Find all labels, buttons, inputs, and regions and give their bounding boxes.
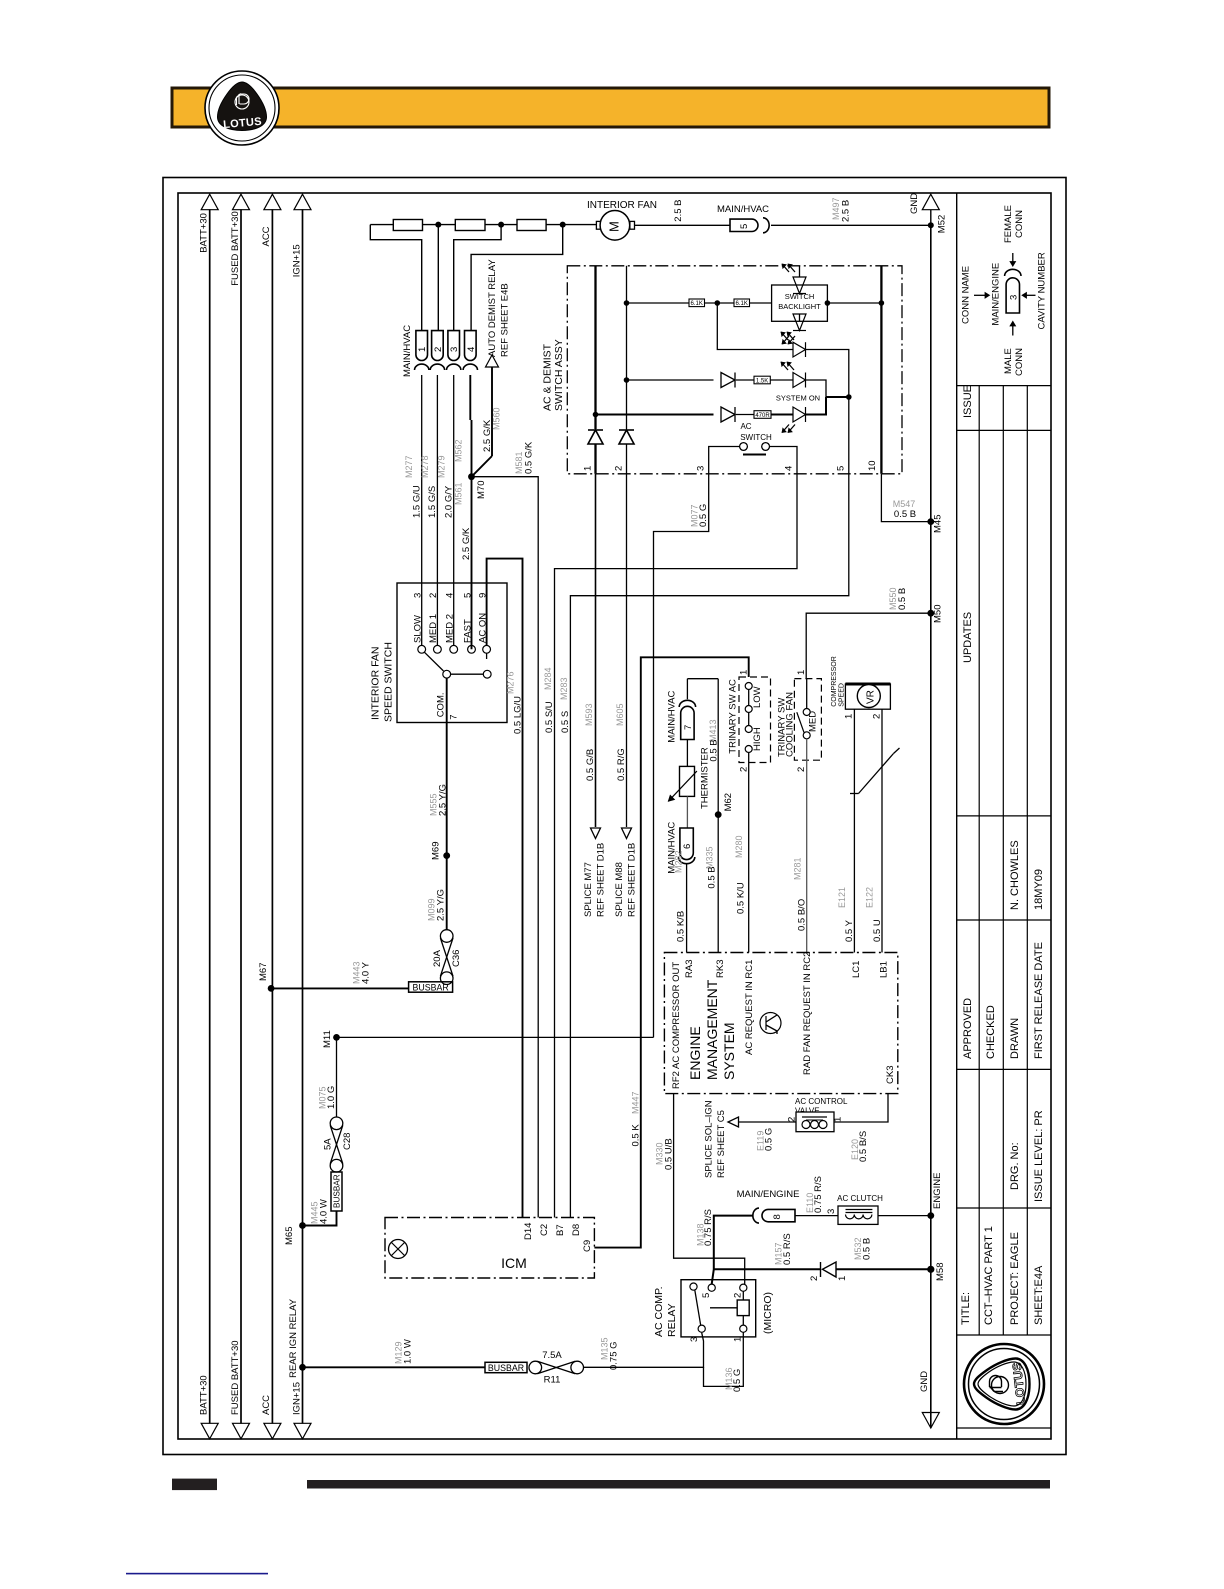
LED system-on indicator (row3) (793, 342, 806, 357)
wire bus seg2 (485, 224, 517, 226)
wire 2.5 G/K M561 to M70 (471, 420, 473, 649)
svg-text:2.5 G/K: 2.5 G/K (461, 527, 472, 560)
svg-text:2: 2 (733, 1293, 744, 1298)
svg-text:0.5 B/O: 0.5 B/O (796, 899, 807, 931)
speed switch contact MED 2 (450, 645, 458, 653)
wire M65 to busbar (4.0 W M445) (303, 1211, 337, 1226)
fuse 7.5A R11 (529, 1361, 542, 1374)
svg-text:3: 3 (696, 466, 707, 471)
resistor fan speed R-med1 (455, 220, 485, 231)
wire LED3 to pin5 wire (806, 350, 849, 474)
switch box TRINARY SW AC (739, 677, 771, 763)
wire 2.5 Y/G M555 (COM to M69) (446, 678, 448, 856)
relay pivot and blade (690, 1283, 697, 1290)
svg-text:PROJECT: EAGLE: PROJECT: EAGLE (1009, 1232, 1021, 1325)
wire M443 4.0 Y (M67 to busbar) (271, 987, 409, 989)
title block row dividers (957, 385, 1051, 387)
busbar (C28) (331, 1172, 342, 1211)
svg-text:2.5 B: 2.5 B (673, 200, 684, 222)
wire 0.5 G/K M581 branch (472, 477, 539, 1218)
svg-text:D14: D14 (523, 1223, 534, 1240)
svg-text:M11: M11 (322, 1030, 333, 1048)
svg-text:0.5 S: 0.5 S (560, 711, 571, 733)
svg-text:SYSTEM ON: SYSTEM ON (776, 394, 820, 403)
svg-text:COM.: COM. (436, 692, 447, 717)
svg-text:0.75 R/S: 0.75 R/S (813, 1176, 824, 1213)
svg-text:SPEED: SPEED (839, 683, 846, 707)
LED backlight lower (799, 314, 801, 322)
fuse 20A C36 (440, 930, 453, 943)
svg-text:M282: M282 (674, 850, 684, 873)
svg-text:REF SHEET E4B: REF SHEET E4B (500, 283, 511, 357)
arrow splice M88 (622, 828, 632, 839)
svg-text:M335: M335 (705, 846, 715, 869)
svg-text:CCT–HVAC PART 1: CCT–HVAC PART 1 (983, 1226, 995, 1325)
node on wire2 (backlight) (624, 300, 630, 306)
wire RK3 (M62 splice, 0.5 B M335) (717, 679, 719, 953)
node M65 on IGN+15 rail (299, 1222, 306, 1229)
svg-text:ICM: ICM (501, 1255, 527, 1271)
svg-text:0.75 R/S: 0.75 R/S (703, 1209, 714, 1246)
speed switch contact MED 1 (434, 645, 442, 653)
svg-text:3: 3 (449, 347, 460, 352)
svg-text:0.5 K/U: 0.5 K/U (736, 882, 747, 914)
relay coil (737, 1300, 749, 1316)
header yellow banner (172, 88, 1049, 127)
wire assy pin4 to ICM B7 (0.5 S/U M284) (555, 474, 798, 1218)
node M52 (928, 222, 934, 228)
wire LED5 up to SYSTEM ON junction (806, 397, 827, 415)
svg-text:4: 4 (784, 466, 795, 471)
switch box TRINARY SW COOLING FAN (794, 679, 821, 761)
ECU box ENGINE MANAGEMENT SYSTEM (664, 953, 897, 1094)
wire 1.5 G/U M277 (421, 375, 423, 645)
wire IGN+15 to busbar R11 (1.0 W M129) (303, 1366, 486, 1368)
svg-text:BUSBAR: BUSBAR (333, 1174, 342, 1208)
wire assy pin5 to ICM D8 (0.5 S M283) (570, 474, 848, 1218)
svg-text:M65: M65 (284, 1227, 295, 1245)
busbar (C36) (409, 982, 453, 992)
wire diode to M58 (836, 1268, 931, 1270)
svg-text:3: 3 (689, 1337, 700, 1342)
power rail BATT+30 wire (209, 209, 211, 1423)
svg-text:GND: GND (909, 193, 920, 214)
resistor fan speed R-med2 (517, 220, 546, 231)
svg-text:CHECKED: CHECKED (985, 1005, 997, 1059)
svg-text:0.5 G: 0.5 G (732, 1369, 743, 1392)
svg-text:0.5 B: 0.5 B (894, 509, 916, 520)
connector MAIN/HVAC cavity 4 (465, 331, 477, 361)
svg-text:0.5 B: 0.5 B (862, 1238, 873, 1260)
svg-text:M547: M547 (893, 499, 916, 509)
svg-text:1.0 G: 1.0 G (326, 1086, 337, 1109)
svg-text:B7: B7 (555, 1224, 566, 1236)
svg-text:M276: M276 (506, 671, 516, 694)
cooling fan contacts MED (803, 709, 810, 716)
relay pin 1 (740, 1325, 747, 1332)
svg-text:FIRST RELEASE DATE: FIRST RELEASE DATE (1033, 942, 1045, 1059)
svg-text:BACKLIGHT: BACKLIGHT (778, 302, 821, 311)
svg-text:SPLICE M88: SPLICE M88 (614, 862, 625, 917)
svg-text:HIGH: HIGH (752, 727, 763, 751)
resistor 1.5K (736, 379, 754, 381)
connector MAIN/HVAC cavity 2 (432, 331, 444, 361)
svg-text:COOLING FAN: COOLING FAN (785, 692, 796, 757)
power rail BATT+30 top arrow (201, 194, 218, 210)
svg-text:FEMALE: FEMALE (1003, 205, 1014, 243)
svg-text:UPDATES: UPDATES (962, 612, 974, 663)
svg-text:M70: M70 (476, 481, 487, 499)
svg-text:SHEET:E4A: SHEET:E4A (1033, 1265, 1045, 1325)
title block column lines (978, 386, 980, 1335)
svg-text:REAR IGN RELAY: REAR IGN RELAY (288, 1298, 299, 1378)
svg-text:MANAGEMENT: MANAGEMENT (704, 979, 720, 1080)
svg-text:(MICRO): (MICRO) (762, 1292, 774, 1334)
svg-text:10: 10 (867, 460, 878, 471)
power rail FUSED BATT+30 top arrow (233, 194, 250, 210)
VR symbol (857, 685, 880, 708)
svg-text:3: 3 (1009, 295, 1020, 300)
svg-text:FUSED BATT+30: FUSED BATT+30 (230, 211, 241, 286)
svg-text:CONN: CONN (1014, 210, 1025, 238)
svg-text:0.5 B: 0.5 B (707, 866, 718, 888)
trinary AC contacts HIGH (745, 726, 752, 733)
svg-text:M284: M284 (543, 667, 553, 690)
legend arrow female (1012, 253, 1014, 262)
svg-text:5: 5 (701, 1293, 712, 1298)
svg-text:M52: M52 (937, 215, 948, 233)
svg-text:BATT+30: BATT+30 (199, 1375, 210, 1415)
resistor 470R (736, 414, 754, 416)
wire AC switch left to pin3 (709, 447, 740, 474)
title block left edge (956, 193, 958, 1439)
svg-text:M62: M62 (723, 793, 734, 811)
svg-text:5: 5 (836, 466, 847, 471)
svg-text:2.5 B: 2.5 B (841, 200, 852, 222)
svg-text:CONN: CONN (1014, 348, 1025, 376)
svg-text:APPROVED: APPROVED (962, 998, 974, 1059)
wire 2.5 G/K M562 upper (469, 375, 471, 420)
wire AC switch right to pin4 (770, 447, 797, 474)
svg-text:3: 3 (413, 593, 424, 598)
svg-text:RELAY: RELAY (666, 1303, 678, 1337)
wire M11 down to fuse C28 (1.0 G M075) (336, 1037, 338, 1117)
svg-text:AC CLUTCH: AC CLUTCH (837, 1194, 883, 1203)
svg-text:COMPRESSOR: COMPRESSOR (831, 656, 838, 707)
svg-text:C36: C36 (451, 950, 462, 967)
outer border frame (163, 178, 1066, 1455)
svg-text:MALE: MALE (1003, 348, 1014, 374)
svg-text:M581: M581 (514, 451, 524, 474)
footer blue rule (126, 1573, 268, 1575)
svg-text:INTERIOR FAN: INTERIOR FAN (370, 646, 382, 720)
svg-text:1: 1 (837, 1276, 848, 1281)
svg-text:CAVITY NUMBER: CAVITY NUMBER (1037, 252, 1048, 329)
svg-text:20A: 20A (432, 949, 443, 967)
wire top bus left step (370, 225, 421, 331)
wire assy pin1 feed (thick) (594, 266, 596, 415)
resistor 6.1K (second) (734, 299, 750, 307)
LED backlight upper (799, 266, 801, 277)
EMS transistor symbol (760, 1013, 781, 1034)
svg-text:2: 2 (428, 593, 439, 598)
svg-text:E122: E122 (865, 887, 875, 908)
svg-text:E121: E121 (837, 887, 847, 908)
svg-text:INTERIOR FAN: INTERIOR FAN (587, 200, 657, 211)
svg-text:M: M (607, 221, 622, 232)
node on IGN+15 rail (R11 feed) (299, 1364, 306, 1371)
svg-text:2: 2 (796, 767, 807, 772)
wire drop to MAIN/HVAC pin4 (471, 225, 563, 331)
wire backlight row (627, 302, 690, 304)
svg-text:MED: MED (808, 711, 819, 732)
svg-text:SPLICE M77: SPLICE M77 (583, 862, 594, 917)
svg-text:DRG. No:: DRG. No: (1009, 1142, 1021, 1190)
wire motor to connector 5 (635, 224, 731, 226)
node M62 (715, 811, 722, 818)
svg-text:ACC: ACC (261, 1395, 272, 1415)
Lotus roundel logo (title block) (964, 1344, 1044, 1424)
svg-text:0.5 S/U: 0.5 S/U (544, 701, 555, 733)
diode (1.5K row) (721, 373, 735, 388)
wire speed switch pin 9 to 0.5 LG/U (487, 559, 523, 1218)
resistor 6.1K (first) (689, 299, 705, 307)
fuse 5A C28 (330, 1117, 343, 1130)
diode on assy wire 1 (588, 430, 603, 444)
speed switch common contact (443, 670, 451, 678)
wire conn8 to AC clutch (0.75 R/S E110) (795, 1215, 838, 1217)
svg-text:FUSED BATT+30: FUSED BATT+30 (230, 1340, 241, 1415)
svg-text:AUTO DEMIST RELAY: AUTO DEMIST RELAY (487, 259, 498, 357)
svg-text:VR: VR (866, 690, 877, 704)
wire drop to MAIN/HVAC pin2 (437, 225, 439, 331)
svg-text:IGN+15: IGN+15 (291, 244, 302, 277)
node M58 (927, 1266, 934, 1273)
footer bar long (307, 1480, 1050, 1489)
svg-text:LC1: LC1 (851, 961, 862, 978)
svg-text:7.5A: 7.5A (542, 1350, 562, 1361)
connector MAIN/HVAC cavity 1 (416, 331, 428, 361)
svg-text:5: 5 (739, 224, 750, 229)
svg-text:SLOW: SLOW (413, 615, 424, 643)
svg-text:GND: GND (919, 1371, 930, 1392)
svg-text:MED 2: MED 2 (445, 614, 456, 643)
node on wire2 (1.5K row) (624, 377, 630, 383)
svg-text:0.5 LG/U: 0.5 LG/U (513, 696, 524, 734)
svg-text:M50: M50 (933, 605, 944, 623)
svg-text:18MY09: 18MY09 (1033, 869, 1045, 910)
svg-text:0.5 K/B: 0.5 K/B (675, 911, 686, 942)
relay pin 3 (698, 1325, 705, 1332)
svg-text:0.5 G/B: 0.5 G/B (585, 749, 596, 781)
svg-text:M283: M283 (559, 677, 569, 700)
wire mid node to LED3 row (717, 303, 793, 350)
svg-text:C9: C9 (582, 1240, 593, 1252)
svg-text:M45: M45 (933, 515, 944, 533)
wire 1.5 G/S M278 (436, 375, 438, 645)
svg-text:0.5 K: 0.5 K (630, 1124, 641, 1147)
svg-text:TRINARY SW AC: TRINARY SW AC (728, 679, 739, 754)
power rail ACC top arrow (264, 194, 281, 210)
wire 1.5K row (627, 379, 714, 381)
wire trinary AC pin2 to EMS RC1 (0.5 K/U M280) (748, 753, 750, 953)
svg-text:4: 4 (466, 347, 477, 352)
svg-text:M560: M560 (492, 407, 502, 430)
speed switch contact AC ON (483, 645, 491, 653)
svg-text:1: 1 (833, 1117, 844, 1122)
svg-text:AC COMP.: AC COMP. (653, 1286, 665, 1337)
svg-text:AC: AC (740, 422, 751, 431)
svg-text:THERMISTER: THERMISTER (700, 747, 711, 809)
svg-text:8: 8 (772, 1214, 783, 1219)
svg-text:SWITCH ASSY: SWITCH ASSY (553, 339, 565, 411)
svg-text:M605: M605 (615, 703, 625, 726)
svg-text:0.5 G: 0.5 G (764, 1128, 775, 1151)
relay box AC COMP. RELAY (MICRO) (681, 1280, 756, 1337)
svg-text:7: 7 (449, 715, 460, 720)
svg-text:REF SHEET D1B: REF SHEET D1B (596, 843, 607, 917)
svg-text:4.0 Y: 4.0 Y (361, 961, 372, 984)
svg-text:2: 2 (614, 466, 625, 471)
legend arrow male (1012, 326, 1014, 336)
node on pin5 wire (846, 394, 852, 400)
svg-text:M497: M497 (831, 197, 841, 220)
svg-text:470R: 470R (755, 413, 770, 419)
svg-text:M562: M562 (454, 439, 464, 462)
svg-text:0.5 G/K: 0.5 G/K (524, 441, 535, 474)
wire LED4 to SYSTEM ON junction (806, 380, 827, 397)
wire assy pin10 (thick) (880, 266, 882, 474)
ICM lamp symbol (389, 1240, 408, 1259)
svg-text:0.5 Y: 0.5 Y (844, 919, 855, 942)
svg-text:AC & DEMIST: AC & DEMIST (542, 343, 554, 411)
node M67 on ACC rail (268, 985, 275, 992)
power rail FUSED BATT+30 bottom arrow (233, 1423, 250, 1439)
svg-text:2.5 Y/G: 2.5 Y/G (438, 784, 449, 816)
wire bus seg3 (546, 224, 596, 226)
legend connector symbol cavity 3 (1005, 269, 1021, 276)
power rail ACC bottom arrow (264, 1423, 281, 1439)
svg-text:M279: M279 (436, 455, 446, 478)
svg-text:2.5 Y/G: 2.5 Y/G (436, 889, 447, 921)
svg-text:5A: 5A (323, 1138, 334, 1150)
svg-text:M281: M281 (793, 857, 803, 880)
diode on assy wire 2 (619, 430, 634, 444)
svg-text:MAIN/HVAC: MAIN/HVAC (667, 690, 678, 742)
Lotus roundel logo (header) (205, 71, 279, 145)
svg-text:1: 1 (733, 1337, 744, 1342)
busbar (R11) (485, 1362, 527, 1372)
svg-text:R11: R11 (544, 1375, 561, 1386)
speed switch link to AC ON pole (451, 673, 484, 675)
svg-text:1: 1 (844, 714, 855, 719)
svg-text:M561: M561 (454, 482, 464, 505)
node M70 (468, 473, 475, 480)
wire 2.0 G/Y M279 (453, 375, 455, 645)
arrow to auto demist relay (486, 355, 499, 367)
footer bar small (172, 1479, 217, 1491)
VR preset diagonal (859, 754, 894, 794)
svg-text:5: 5 (462, 593, 473, 598)
diode (470R row) (721, 407, 735, 422)
diode D1 (to M58) (823, 1262, 837, 1277)
LED (1.5K row) (793, 373, 806, 388)
svg-text:SYSTEM: SYSTEM (721, 1022, 737, 1080)
wire clutch to engine rail (878, 1215, 931, 1217)
legend arrow cavity (1027, 294, 1036, 296)
svg-text:SPEED SWITCH: SPEED SWITCH (383, 642, 395, 722)
wire right ground rail (M52 to GND bottom) (930, 225, 932, 1428)
svg-text:RK3: RK3 (715, 960, 726, 978)
svg-text:MAIN/HVAC: MAIN/HVAC (402, 325, 413, 377)
svg-text:REF SHEET C5: REF SHEET C5 (716, 1110, 727, 1178)
speed switch contact FAST (468, 645, 476, 653)
relay pin 5 (708, 1284, 715, 1291)
svg-text:DRAWN: DRAWN (1009, 1018, 1021, 1059)
node M50 (927, 610, 934, 617)
svg-text:M67: M67 (258, 963, 269, 981)
svg-text:MED 1: MED 1 (428, 614, 439, 643)
svg-text:0.5 B/S: 0.5 B/S (858, 1131, 869, 1162)
cooling fan pin1 wire (806, 679, 808, 709)
svg-text:1: 1 (796, 670, 807, 675)
svg-text:BUSBAR: BUSBAR (488, 1363, 524, 1373)
node junction to pin4 (560, 222, 566, 228)
svg-text:AC REQUEST IN RC1: AC REQUEST IN RC1 (744, 960, 755, 1055)
module box ICM (385, 1218, 594, 1279)
svg-text:MAIN/HVAC: MAIN/HVAC (717, 204, 769, 215)
svg-text:TITLE:: TITLE: (960, 1292, 972, 1325)
wire assy pin1 to splice M77 (0.5 G/B M593) (595, 474, 597, 827)
svg-text:ISSUE: ISSUE (962, 385, 974, 418)
wire assy pin2 to splice M88 (0.5 R/G M605) (626, 474, 628, 827)
svg-text:1: 1 (739, 670, 750, 675)
svg-text:7: 7 (683, 725, 694, 730)
svg-text:1.5 G/U: 1.5 G/U (412, 485, 423, 518)
svg-text:1.5 G/S: 1.5 G/S (427, 486, 438, 518)
wire thermister to conn6 (686, 796, 688, 828)
svg-text:4.0 W: 4.0 W (319, 1199, 330, 1224)
svg-text:AC CONTROL: AC CONTROL (795, 1097, 848, 1106)
node junction to pin2 (435, 222, 441, 228)
svg-text:M280: M280 (734, 835, 744, 858)
svg-text:M593: M593 (584, 703, 594, 726)
node M69 (443, 852, 450, 859)
svg-text:2: 2 (739, 767, 750, 772)
arrow SPLICE SOL-IGN (728, 1117, 739, 1127)
power rail FUSED BATT+30 wire (240, 209, 242, 1423)
power rail IGN+15 bottom arrow (294, 1423, 311, 1439)
svg-text:M69: M69 (431, 842, 442, 860)
connector MAIN/HVAC cavity 3 (448, 331, 460, 361)
wire connector 5 to M52 (771, 224, 931, 226)
wire conn7 to thermister (686, 740, 688, 767)
power rail BATT+30 bottom arrow (201, 1423, 218, 1439)
wire EMS CK3 to AC control valve (834, 1094, 888, 1122)
svg-text:SPLICE SOL–IGN: SPLICE SOL–IGN (704, 1100, 715, 1178)
component box COMPRESSOR SPEED (845, 684, 890, 709)
svg-text:N. CHOWLES: N. CHOWLES (1009, 840, 1021, 910)
svg-text:ISSUE LEVEL: PR: ISSUE LEVEL: PR (1033, 1110, 1045, 1202)
power rail ACC wire (271, 209, 273, 1423)
trinary AC contacts LOW (745, 683, 752, 690)
svg-text:ACC: ACC (261, 226, 272, 246)
wire link conn7 to RK3 wire (687, 678, 718, 680)
svg-text:1.5K: 1.5K (756, 378, 768, 384)
node pin10 x backlight (879, 300, 885, 306)
LED (470R row) (793, 407, 806, 422)
svg-text:RA3: RA3 (684, 960, 695, 978)
